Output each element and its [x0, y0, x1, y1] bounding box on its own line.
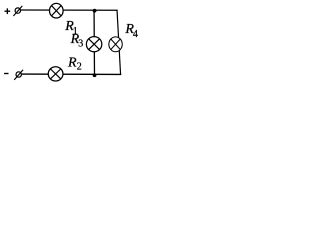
label R1: [64, 19, 78, 37]
lamp R1 (circled X): [50, 3, 64, 18]
lamp R2 (circled X): [48, 67, 63, 81]
wire bottom horizontal: [22, 73, 122, 75]
lamp R4 (circled X): [109, 37, 122, 52]
label R4: [124, 22, 137, 40]
terminal minus: [4, 73, 8, 75]
svg-text:3: 3: [78, 39, 83, 50]
node junction bottom: [93, 73, 97, 77]
terminal symbol top (circle with slash): [13, 6, 22, 16]
svg-text:2: 2: [77, 62, 82, 73]
lamp R3 (circled X): [86, 37, 101, 52]
label R2: [67, 55, 82, 72]
node junction top: [93, 9, 97, 13]
wire top horizontal: [21, 9, 118, 11]
terminal plus: [5, 8, 11, 14]
svg-text:R: R: [67, 55, 77, 70]
label R3: [70, 32, 84, 50]
terminal symbol bottom (circle with slash): [14, 70, 23, 80]
wire right slanted vertical: [117, 10, 121, 75]
wire middle vertical: [93, 10, 95, 74]
svg-text:4: 4: [133, 29, 138, 40]
